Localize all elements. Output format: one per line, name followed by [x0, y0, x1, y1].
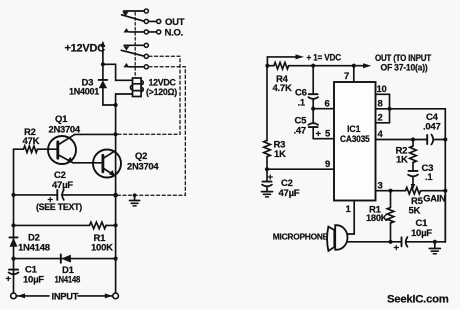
relay K1 contact pole 1: [122, 9, 161, 34]
wire right rail: [444, 109, 446, 242]
wire D1 row: [14, 258, 116, 260]
svg-text:IC1: IC1: [347, 124, 361, 134]
pin 7 riser: [353, 66, 355, 82]
svg-text:+: +: [268, 172, 274, 183]
svg-text:N.O.: N.O.: [165, 28, 184, 39]
svg-text:10µF: 10µF: [23, 275, 44, 286]
wire Q1 collector to rail: [75, 133, 116, 135]
wire R3 to pin9 node: [266, 157, 268, 170]
svg-text:+: +: [316, 129, 322, 140]
node dot mic/R1: [388, 240, 392, 244]
svg-text:+12VDC: +12VDC: [65, 43, 106, 55]
wire C6 riser: [312, 66, 314, 94]
capacitor C2 47uF (right): [262, 169, 272, 191]
wire Q1 emitter to Q2 base: [73, 162, 102, 164]
INPUT terminal left: [11, 293, 17, 299]
dashed net: contact to collector node: [118, 56, 180, 134]
capacitor C4 .047: [413, 135, 445, 145]
pin 8 stub: [376, 108, 390, 110]
wire pin 9: [267, 168, 334, 170]
node dot C4 right: [443, 137, 447, 141]
svg-text:1N4001: 1N4001: [69, 87, 100, 98]
resistor R3 1K: [264, 141, 271, 157]
svg-text:INPUT: INPUT: [52, 291, 79, 301]
node dot pin3: [388, 189, 392, 193]
wire pin8 to right rail: [390, 108, 446, 110]
svg-text:7: 7: [344, 71, 349, 82]
svg-text:2: 2: [378, 113, 383, 124]
diode D2 1N4148: [9, 237, 17, 246]
pin 1 riser: [347, 201, 354, 235]
resistor R1 100K: [14, 222, 116, 229]
wire pins 10-8-2 tie: [389, 94, 391, 123]
wire left rail to R3: [266, 66, 268, 141]
svg-text:3: 3: [378, 180, 383, 191]
svg-text:+: +: [394, 243, 400, 254]
INPUT row wires and arrows: [17, 293, 113, 298]
wire D3 anode to rail: [103, 104, 116, 106]
node dot ground net: [433, 240, 437, 244]
svg-text:4.7K: 4.7K: [273, 83, 292, 94]
capacitor C5 .47: [308, 109, 318, 139]
capacitor C3 .1: [408, 171, 418, 177]
node dot D1 left: [11, 257, 15, 261]
svg-text:100K: 100K: [91, 242, 113, 253]
svg-text:OUT: OUT: [165, 17, 185, 28]
node dot R5 right: [443, 189, 447, 193]
wire mic to ground row: [347, 241, 391, 243]
svg-text:4: 4: [378, 129, 384, 140]
resistor R1 180K (right): [387, 191, 394, 242]
svg-text:(>120Ω): (>120Ω): [146, 87, 177, 97]
transistor Q1 2N3704: [44, 135, 76, 164]
svg-text:47µF: 47µF: [279, 188, 300, 199]
node dot C2 left: [11, 193, 15, 197]
svg-text:(SEE TEXT): (SEE TEXT): [36, 202, 82, 212]
dashed net: contact to ground node: [118, 67, 185, 195]
svg-text:2N3704: 2N3704: [127, 160, 159, 171]
wire pin 6: [313, 108, 334, 110]
node dot pin8: [387, 107, 391, 111]
diode D3 1N4001: [99, 64, 108, 105]
potentiometer R5 5K: [391, 187, 446, 194]
svg-text:5K: 5K: [409, 206, 421, 217]
diode D1 1N4148: [61, 254, 71, 262]
svg-text:OF 37-10(a)): OF 37-10(a)): [381, 62, 428, 72]
svg-text:1N4148: 1N4148: [55, 275, 81, 285]
node dot R4 left: [265, 64, 269, 68]
svg-text:+ 1= VDC: + 1= VDC: [307, 52, 342, 63]
capacitor C1 10uF: [9, 270, 19, 275]
wire to right rail bottom: [435, 191, 446, 242]
svg-text:47µF: 47µF: [52, 180, 73, 191]
svg-text:8: 8: [378, 99, 383, 110]
node dot emitter/ground net: [113, 193, 118, 198]
wire pin 5: [313, 138, 334, 140]
svg-text:.1: .1: [425, 172, 433, 183]
svg-text:.047: .047: [423, 122, 441, 133]
node dot coil-bottom: [114, 103, 118, 107]
capacitor C1 10uF (right): [391, 237, 435, 247]
transistor Q2 2N3704: [93, 150, 121, 178]
op-amp IC1 CA3035 body: [334, 82, 376, 201]
svg-text:10µF: 10µF: [411, 228, 432, 239]
svg-text:12VDC: 12VDC: [149, 78, 177, 88]
svg-text:.1: .1: [298, 98, 306, 109]
pin 4 stub: [376, 139, 414, 141]
+12VDC supply arrow: [100, 41, 105, 65]
svg-text:CA3035: CA3035: [340, 134, 370, 145]
node dot R1 right: [114, 223, 118, 227]
node dot pin6: [311, 107, 315, 111]
INPUT terminal right: [113, 293, 119, 299]
svg-text:1: 1: [346, 204, 352, 215]
svg-text:180K: 180K: [366, 213, 388, 223]
node dot C4 left: [411, 137, 415, 141]
wire +12V node to coil top: [103, 64, 133, 80]
node dot pin9: [265, 167, 269, 171]
node dot collector net: [114, 132, 118, 136]
svg-text:SeekIC.com: SeekIC.com: [387, 294, 449, 306]
node dot D1 right: [114, 257, 118, 261]
node dot C6 top: [311, 64, 315, 68]
svg-text:2N3704: 2N3704: [49, 124, 81, 135]
svg-text:47K: 47K: [23, 136, 40, 147]
potentiometer wiper arrow: [411, 177, 416, 190]
resistor R4 4.7K: [274, 62, 289, 69]
ground symbol below C2: [262, 192, 273, 197]
svg-text:1K: 1K: [274, 149, 286, 160]
relay K1 contact pole 2: [121, 43, 148, 69]
OUT arrow: [354, 63, 372, 68]
node dot pin7: [352, 64, 356, 68]
microphone symbol: [327, 225, 347, 251]
pin 10 stub: [376, 93, 390, 95]
node dot +12V: [101, 62, 105, 66]
svg-text:9: 9: [325, 159, 330, 170]
svg-text:1N4148: 1N4148: [18, 243, 50, 254]
svg-text:1K: 1K: [396, 155, 408, 166]
svg-text:5: 5: [325, 129, 331, 140]
resistor R2 1K (right): [410, 140, 417, 172]
svg-text:+: +: [6, 274, 12, 285]
wire coil bottom to rail: [116, 94, 133, 105]
svg-text:10: 10: [377, 84, 387, 95]
relay coil K1: [130, 78, 143, 97]
capacitor C6 .1: [308, 94, 318, 109]
svg-text:6: 6: [325, 99, 330, 110]
node dot R1 left: [11, 223, 15, 227]
ground symbol (right bottom): [429, 242, 440, 254]
svg-text:.47: .47: [294, 126, 306, 137]
svg-text:GAIN: GAIN: [423, 193, 446, 203]
wire left rail: [13, 149, 15, 293]
wire rail R4 to pin7 node: [289, 65, 354, 67]
wire main right rail: [115, 105, 117, 293]
pin 3 stub: [376, 190, 391, 192]
resistor R2 47K: [14, 146, 45, 153]
wire top rail: [267, 65, 274, 67]
pin 2 stub: [376, 122, 390, 124]
supply arrow +1=VDC: [267, 54, 304, 65]
capacitor C2 47uF: [14, 190, 116, 200]
svg-text:MICROPHONE: MICROPHONE: [273, 231, 329, 241]
relay armature linkage (dashed): [134, 13, 136, 79]
ground symbol (dashed net tap): [130, 193, 140, 206]
